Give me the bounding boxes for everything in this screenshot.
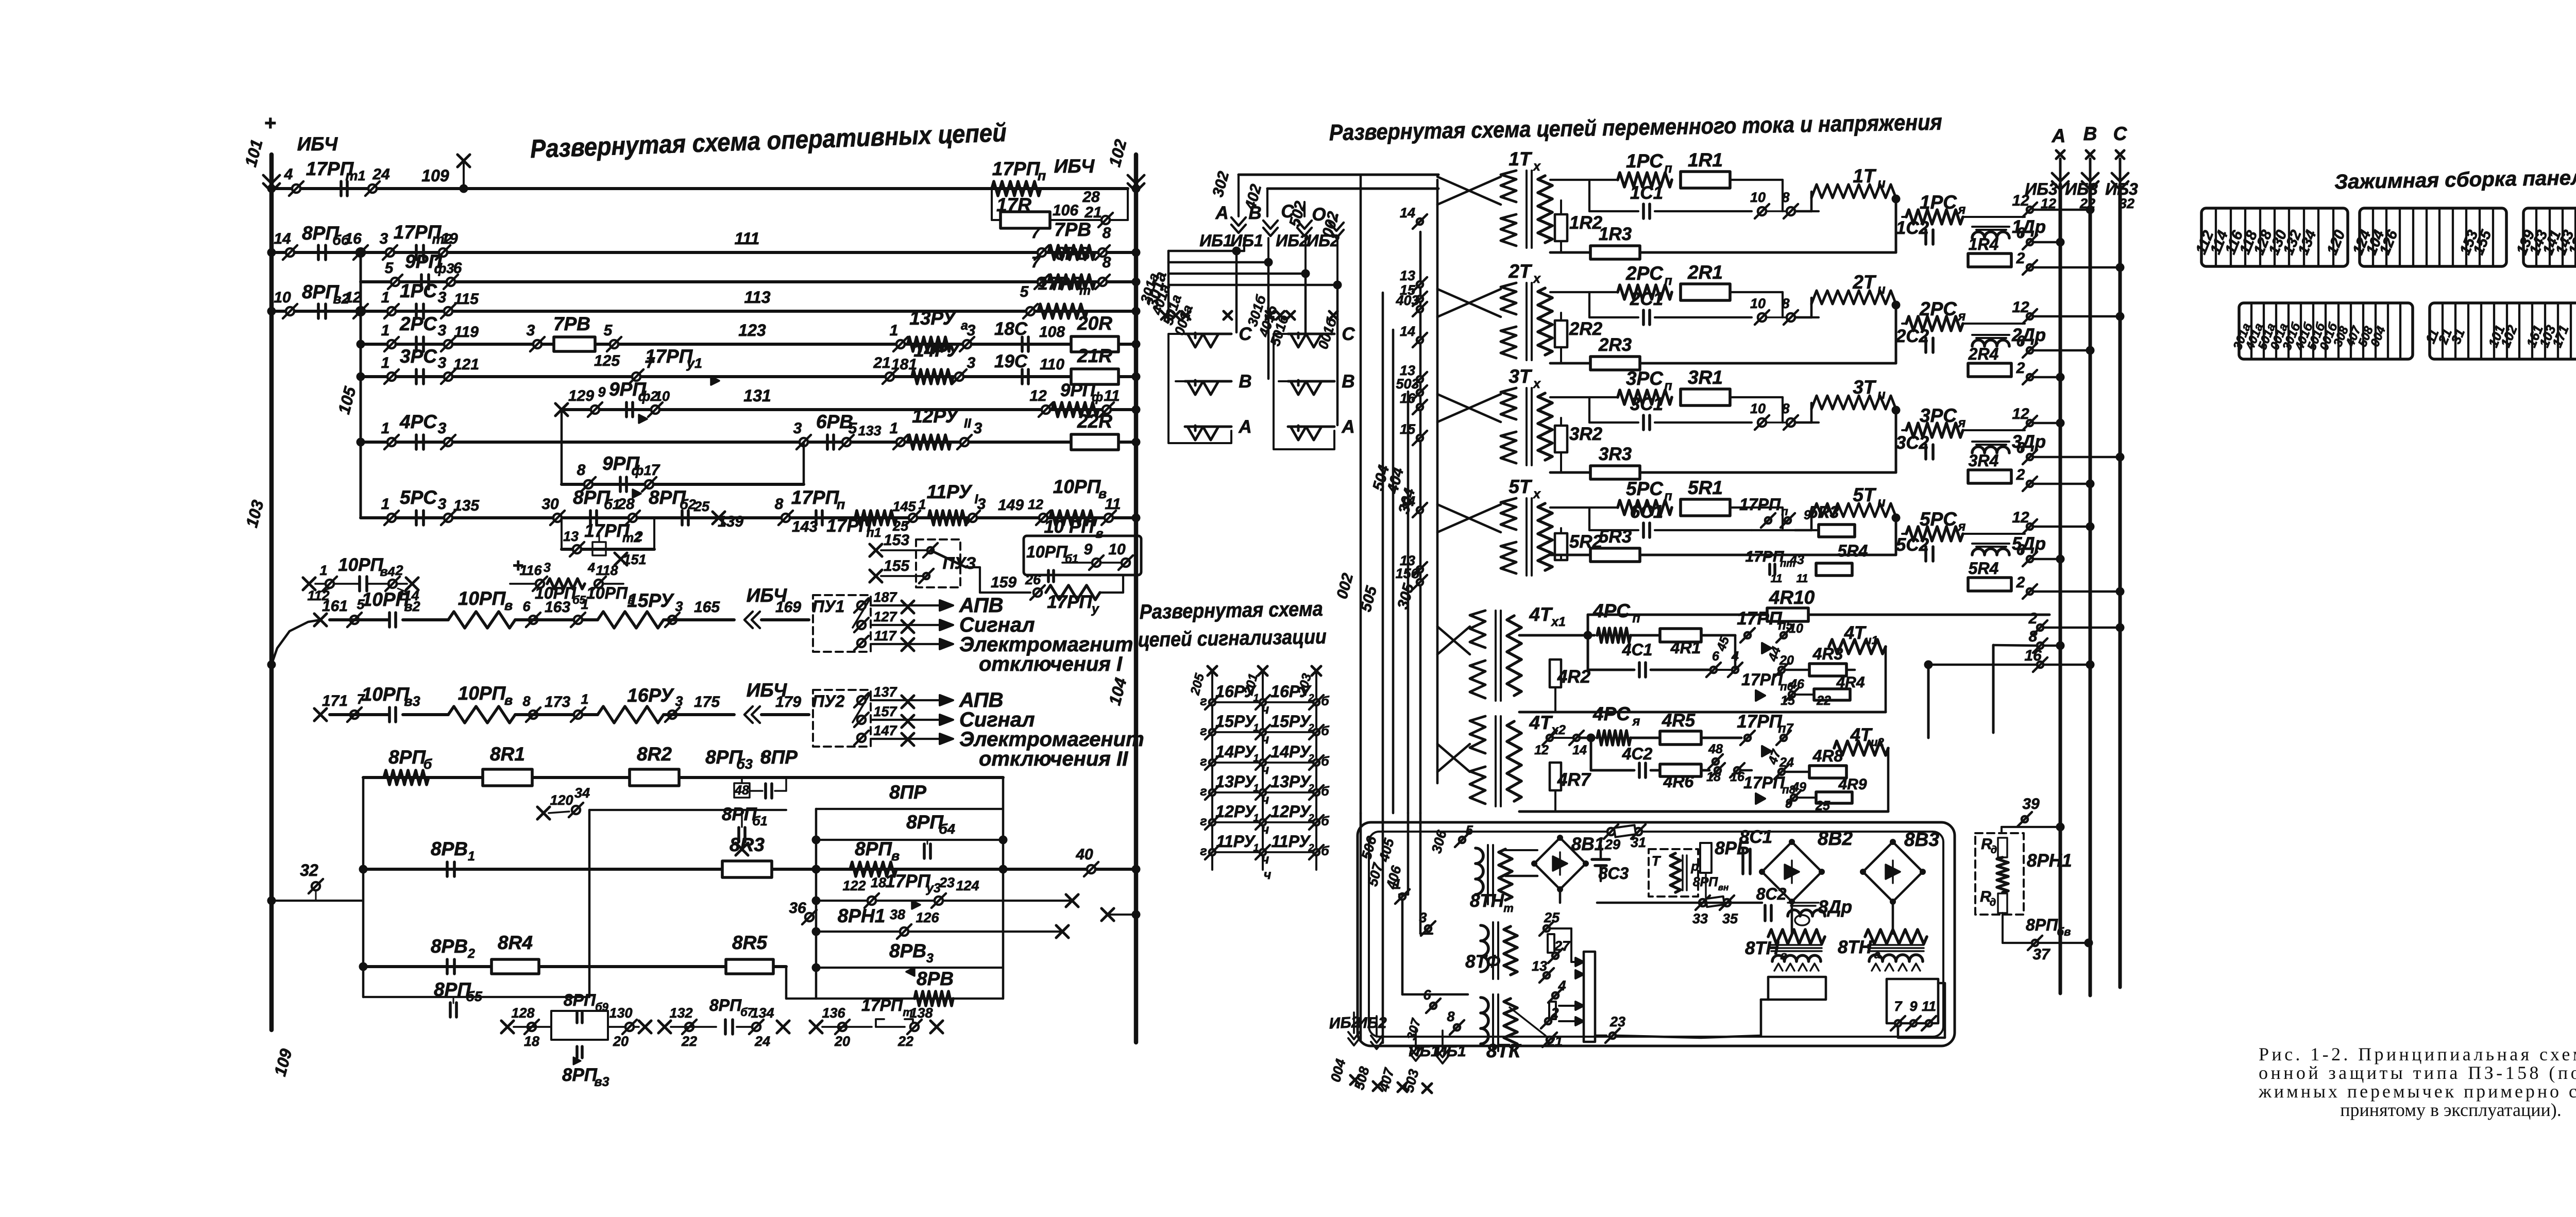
- svg-text:б: б: [1321, 844, 1330, 858]
- svg-text:4Т: 4Т: [1529, 604, 1553, 625]
- svg-text:28: 28: [617, 496, 635, 513]
- svg-text:б1: б1: [752, 814, 767, 829]
- svg-text:7: 7: [1894, 999, 1903, 1014]
- svg-text:10РП: 10РП: [458, 683, 506, 704]
- svg-text:п: п: [1664, 274, 1672, 288]
- svg-text:ч: ч: [1262, 852, 1269, 867]
- svg-text:т: т: [1503, 902, 1514, 915]
- svg-text:в: в: [891, 848, 900, 864]
- svg-text:7: 7: [1031, 225, 1041, 242]
- svg-text:30: 30: [541, 496, 559, 513]
- svg-text:5: 5: [1020, 283, 1029, 300]
- svg-text:40: 40: [1075, 846, 1093, 863]
- svg-text:6: 6: [1712, 649, 1720, 664]
- svg-text:18: 18: [524, 1034, 539, 1049]
- svg-text:4РС: 4РС: [399, 411, 437, 432]
- svg-text:г: г: [1200, 844, 1207, 858]
- svg-text:6: 6: [2016, 333, 2025, 350]
- svg-text:4R2: 4R2: [1557, 667, 1591, 687]
- svg-text:1: 1: [1253, 842, 1259, 854]
- svg-text:3: 3: [977, 496, 986, 513]
- svg-text:г: г: [1200, 694, 1207, 708]
- svg-text:ф3: ф3: [434, 261, 454, 276]
- svg-text:187: 187: [873, 589, 897, 605]
- svg-text:5R4: 5R4: [1838, 542, 1868, 560]
- svg-text:6: 6: [2016, 440, 2025, 457]
- svg-text:А: А: [1215, 203, 1228, 223]
- svg-text:1R2: 1R2: [1569, 213, 1603, 233]
- svg-text:ч: ч: [1262, 732, 1269, 747]
- svg-text:ИБ2: ИБ2: [1276, 231, 1309, 250]
- svg-text:34: 34: [574, 785, 590, 801]
- svg-text:153: 153: [884, 532, 909, 549]
- svg-text:А: А: [1341, 417, 1354, 437]
- svg-text:8ПР: 8ПР: [760, 747, 798, 768]
- svg-text:13: 13: [1400, 268, 1415, 283]
- svg-text:В: В: [1248, 203, 1261, 223]
- svg-text:8РН1: 8РН1: [838, 905, 886, 926]
- svg-text:С: С: [1281, 201, 1294, 222]
- svg-text:9РП: 9РП: [1060, 380, 1096, 400]
- svg-text:р: р: [1690, 859, 1699, 874]
- svg-text:2РС: 2РС: [1919, 298, 1957, 319]
- svg-text:115: 115: [454, 291, 479, 308]
- svg-text:ч: ч: [1262, 763, 1269, 777]
- svg-text:169: 169: [775, 599, 801, 616]
- svg-text:6: 6: [522, 599, 531, 614]
- svg-text:7РВ: 7РВ: [553, 313, 590, 334]
- svg-text:17РП: 17РП: [1038, 274, 1083, 294]
- svg-text:в4: в4: [380, 565, 395, 579]
- svg-text:8РВ: 8РВ: [431, 838, 468, 859]
- svg-text:10РП: 10РП: [338, 555, 383, 575]
- svg-text:4R10: 4R10: [1769, 587, 1815, 608]
- svg-text:109: 109: [421, 166, 449, 185]
- svg-text:г: г: [1200, 814, 1207, 829]
- svg-text:б: б: [1321, 724, 1330, 738]
- svg-text:8: 8: [522, 694, 530, 709]
- svg-text:8: 8: [1782, 190, 1789, 205]
- svg-text:8С2: 8С2: [1756, 885, 1787, 903]
- svg-text:15б: 15б: [1396, 566, 1420, 581]
- svg-text:4: 4: [284, 166, 293, 183]
- svg-text:8ТН: 8ТН: [1745, 938, 1780, 958]
- svg-text:128: 128: [511, 1005, 534, 1021]
- svg-text:2: 2: [1308, 722, 1314, 734]
- svg-text:1R1: 1R1: [1688, 149, 1723, 171]
- svg-text:143: 143: [792, 518, 818, 535]
- svg-text:2: 2: [2016, 360, 2025, 377]
- svg-text:12: 12: [2012, 509, 2029, 526]
- svg-text:8ТН: 8ТН: [1470, 891, 1504, 911]
- svg-text:139: 139: [718, 513, 743, 530]
- svg-text:г: г: [1200, 754, 1207, 769]
- svg-text:х: х: [1532, 272, 1541, 286]
- svg-text:и: и: [1877, 176, 1885, 191]
- svg-text:126: 126: [916, 910, 939, 925]
- svg-text:10: 10: [274, 289, 291, 306]
- svg-text:4Т: 4Т: [1844, 623, 1867, 643]
- svg-text:16РУ: 16РУ: [627, 685, 674, 706]
- svg-text:в: в: [1095, 527, 1103, 541]
- svg-text:48: 48: [734, 783, 749, 798]
- svg-text:15: 15: [1781, 694, 1795, 708]
- svg-text:т: т: [1079, 283, 1091, 298]
- svg-text:ИБ2: ИБ2: [1356, 1015, 1387, 1032]
- svg-text:в: в: [504, 692, 513, 708]
- svg-text:3: 3: [527, 322, 535, 339]
- svg-text:8R4: 8R4: [498, 932, 533, 953]
- svg-text:15: 15: [1400, 421, 1416, 437]
- svg-text:2Т: 2Т: [1508, 261, 1533, 282]
- svg-text:157: 157: [873, 704, 897, 719]
- svg-text:2: 2: [467, 946, 475, 961]
- svg-text:127: 127: [873, 609, 897, 624]
- svg-text:3R1: 3R1: [1688, 367, 1723, 388]
- svg-text:17РП: 17РП: [791, 487, 840, 508]
- svg-text:я: я: [1957, 416, 1966, 430]
- svg-text:8РП: 8РП: [855, 838, 892, 859]
- svg-text:2R1: 2R1: [1687, 262, 1723, 283]
- svg-text:6: 6: [2016, 225, 2025, 242]
- svg-text:12: 12: [1028, 497, 1043, 512]
- svg-text:4R5: 4R5: [1662, 711, 1696, 731]
- svg-text:3: 3: [544, 561, 551, 575]
- svg-text:16: 16: [1400, 391, 1416, 406]
- svg-text:5R3: 5R3: [1599, 527, 1632, 547]
- svg-text:3: 3: [438, 496, 447, 513]
- svg-text:8В2: 8В2: [1818, 828, 1853, 849]
- svg-text:вн: вн: [1718, 883, 1729, 892]
- svg-text:х: х: [1532, 487, 1541, 501]
- svg-text:130: 130: [609, 1005, 632, 1021]
- svg-text:А: А: [1238, 417, 1251, 437]
- svg-text:1РС: 1РС: [400, 280, 437, 301]
- svg-text:17РП: 17РП: [1745, 548, 1785, 565]
- svg-text:Зажимная сборка панели: Зажимная сборка панели: [2334, 166, 2576, 194]
- svg-text:Т: Т: [1652, 853, 1662, 869]
- svg-text:116: 116: [519, 563, 542, 578]
- svg-text:10: 10: [1108, 541, 1126, 558]
- svg-text:1С2: 1С2: [1896, 218, 1929, 238]
- svg-text:1: 1: [381, 354, 390, 371]
- svg-text:1РС: 1РС: [1920, 192, 1957, 213]
- svg-text:г: г: [1200, 724, 1207, 738]
- svg-text:8РН1: 8РН1: [2027, 851, 2072, 871]
- svg-text:5R3: 5R3: [1809, 503, 1839, 521]
- svg-text:3РС: 3РС: [400, 346, 437, 367]
- svg-text:п: п: [1632, 611, 1640, 626]
- svg-text:8R3: 8R3: [730, 834, 765, 855]
- svg-text:2: 2: [2028, 610, 2038, 627]
- svg-text:3РС: 3РС: [1626, 368, 1664, 389]
- svg-text:161: 161: [322, 598, 348, 615]
- svg-text:503: 503: [1396, 376, 1419, 392]
- svg-text:3: 3: [967, 354, 976, 371]
- svg-text:22: 22: [681, 1034, 697, 1049]
- svg-text:4R9: 4R9: [1838, 776, 1867, 793]
- svg-text:8: 8: [2029, 628, 2038, 645]
- svg-text:6РВ: 6РВ: [1055, 244, 1090, 264]
- svg-text:п: п: [1781, 505, 1788, 518]
- svg-text:14: 14: [1572, 743, 1587, 757]
- svg-text:4: 4: [587, 561, 595, 575]
- svg-text:3: 3: [793, 420, 802, 437]
- svg-text:23: 23: [1609, 1014, 1625, 1029]
- svg-text:ИБ1: ИБ1: [1199, 231, 1232, 250]
- svg-text:12: 12: [2012, 299, 2029, 316]
- svg-text:я: я: [1957, 309, 1966, 324]
- svg-text:13РУ: 13РУ: [909, 308, 957, 329]
- svg-text:ИБЧ: ИБЧ: [297, 133, 338, 155]
- svg-text:отключения II: отключения II: [979, 748, 1128, 770]
- svg-text:8С3: 8С3: [1599, 864, 1629, 883]
- svg-text:п: п: [837, 497, 845, 512]
- svg-text:1: 1: [890, 322, 899, 339]
- svg-text:ИБ2: ИБ2: [1329, 1013, 1360, 1032]
- svg-text:ч: ч: [1262, 702, 1269, 717]
- svg-text:17РП: 17РП: [1737, 712, 1782, 732]
- svg-text:12РУ: 12РУ: [912, 405, 959, 427]
- svg-text:37: 37: [2032, 946, 2050, 963]
- svg-text:2С2: 2С2: [1895, 326, 1929, 346]
- svg-text:5: 5: [604, 322, 613, 339]
- svg-text:14РУ: 14РУ: [913, 340, 961, 361]
- svg-text:и: и: [1877, 495, 1885, 510]
- svg-text:8РП: 8РП: [562, 1065, 598, 1085]
- svg-text:20R: 20R: [1077, 313, 1112, 334]
- svg-text:д: д: [1990, 897, 1996, 908]
- svg-text:б: б: [1321, 754, 1330, 769]
- svg-text:3: 3: [438, 354, 447, 371]
- svg-text:4Т: 4Т: [1850, 725, 1873, 745]
- svg-text:2Т: 2Т: [1852, 272, 1877, 293]
- svg-text:5С2: 5С2: [1896, 535, 1929, 555]
- svg-text:Развернутая схема: Развернутая схема: [1139, 598, 1323, 623]
- svg-text:108: 108: [1039, 324, 1065, 341]
- svg-text:II: II: [964, 416, 972, 431]
- svg-text:8: 8: [1782, 296, 1789, 311]
- svg-text:б4: б4: [939, 821, 955, 837]
- svg-text:14: 14: [1400, 494, 1415, 509]
- svg-text:16РУ: 16РУ: [1270, 682, 1312, 701]
- svg-text:д: д: [1991, 844, 1997, 856]
- svg-text:3: 3: [438, 420, 447, 437]
- svg-text:у1: у1: [686, 356, 702, 371]
- svg-text:4РС: 4РС: [1592, 703, 1631, 724]
- svg-text:5Т: 5Т: [1509, 476, 1533, 497]
- svg-text:3С1: 3С1: [1630, 394, 1663, 414]
- svg-text:3Т: 3Т: [1509, 366, 1533, 387]
- svg-text:12РУ: 12РУ: [1270, 802, 1312, 821]
- svg-text:1: 1: [381, 289, 390, 306]
- svg-text:137: 137: [873, 684, 897, 700]
- svg-text:134: 134: [751, 1005, 774, 1021]
- svg-text:129: 129: [568, 387, 594, 404]
- svg-text:111: 111: [735, 229, 760, 248]
- svg-text:3: 3: [926, 951, 934, 966]
- svg-text:б3: б3: [736, 756, 753, 772]
- svg-text:125: 125: [594, 352, 620, 369]
- svg-text:131: 131: [743, 386, 771, 405]
- svg-text:173: 173: [545, 694, 570, 711]
- svg-text:159: 159: [991, 574, 1016, 591]
- svg-text:2: 2: [634, 529, 642, 544]
- svg-text:149: 149: [998, 497, 1024, 514]
- svg-text:10РП: 10РП: [586, 584, 628, 602]
- svg-text:в3: в3: [594, 1075, 609, 1089]
- svg-text:32: 32: [2119, 196, 2134, 211]
- svg-text:ИБ1: ИБ1: [1435, 1043, 1466, 1060]
- svg-text:1R3: 1R3: [1599, 224, 1632, 244]
- svg-text:1С1: 1С1: [1630, 183, 1663, 203]
- svg-text:ф1: ф1: [632, 463, 652, 478]
- svg-text:и: и: [1877, 387, 1885, 402]
- svg-text:9: 9: [1909, 999, 1917, 1014]
- svg-text:11: 11: [1771, 572, 1783, 585]
- svg-text:1: 1: [918, 497, 926, 512]
- svg-text:б9: б9: [595, 1001, 609, 1013]
- svg-text:17РП: 17РП: [861, 996, 903, 1015]
- svg-text:С: С: [1342, 324, 1355, 344]
- svg-text:1: 1: [319, 563, 327, 578]
- svg-text:10РП: 10РП: [1026, 543, 1068, 561]
- svg-text:8РП: 8РП: [2026, 916, 2058, 934]
- svg-text:14РУ: 14РУ: [1270, 742, 1312, 761]
- svg-text:117: 117: [874, 628, 897, 644]
- svg-text:1: 1: [381, 322, 390, 339]
- svg-text:я: я: [1957, 202, 1966, 217]
- svg-text:3: 3: [974, 420, 982, 437]
- svg-text:С: С: [2113, 123, 2128, 144]
- svg-text:7: 7: [651, 462, 660, 479]
- svg-text:1: 1: [1253, 783, 1259, 794]
- svg-text:1Т: 1Т: [1509, 148, 1533, 170]
- svg-text:4РС: 4РС: [1592, 600, 1631, 621]
- svg-text:8В3: 8В3: [1904, 829, 1939, 850]
- svg-text:113: 113: [744, 288, 770, 307]
- svg-text:жимных перемычек примерно соот: жимных перемычек примерно соответствует: [2258, 1081, 2576, 1102]
- svg-text:3R4: 3R4: [1969, 451, 1999, 470]
- svg-text:17РП: 17РП: [1737, 608, 1782, 629]
- svg-text:15РУ: 15РУ: [1270, 712, 1312, 731]
- svg-text:122: 122: [842, 878, 866, 893]
- svg-text:1: 1: [581, 691, 588, 707]
- svg-text:4R7: 4R7: [1557, 770, 1591, 790]
- svg-text:11РУ: 11РУ: [1216, 832, 1256, 851]
- svg-text:2: 2: [2016, 466, 2025, 483]
- svg-text:4С2: 4С2: [1622, 745, 1653, 763]
- svg-text:цепей сигнализации: цепей сигнализации: [1138, 626, 1327, 651]
- svg-text:1: 1: [1253, 722, 1259, 734]
- svg-text:17РП: 17РП: [992, 158, 1041, 179]
- svg-text:19С: 19С: [994, 351, 1028, 371]
- svg-text:10: 10: [1750, 190, 1766, 205]
- svg-text:22: 22: [897, 1034, 913, 1049]
- svg-text:и2: и2: [1871, 736, 1884, 749]
- svg-text:А: А: [2052, 125, 2066, 146]
- svg-text:10РП: 10РП: [458, 588, 506, 609]
- svg-text:8ПР: 8ПР: [889, 782, 926, 803]
- svg-text:В: В: [2083, 123, 2097, 144]
- svg-text:120: 120: [550, 792, 573, 808]
- svg-text:8: 8: [577, 462, 586, 479]
- svg-text:33: 33: [1692, 911, 1708, 926]
- svg-text:Рис. 1-2. Принципиальная схема: Рис. 1-2. Принципиальная схема дистанци-: [2259, 1044, 2576, 1064]
- svg-text:1РС: 1РС: [1626, 150, 1664, 172]
- svg-text:11: 11: [1922, 999, 1936, 1014]
- svg-text:11РУ: 11РУ: [1271, 832, 1311, 851]
- svg-text:б: б: [1321, 784, 1330, 799]
- svg-text:+: +: [264, 112, 276, 134]
- svg-text:8В1: 8В1: [1571, 834, 1604, 854]
- svg-text:32: 32: [300, 861, 318, 880]
- svg-text:26: 26: [1025, 572, 1041, 587]
- svg-text:21R: 21R: [1077, 345, 1112, 366]
- svg-text:я: я: [1632, 714, 1640, 729]
- svg-text:а: а: [1874, 948, 1880, 961]
- svg-text:у: у: [1091, 602, 1099, 616]
- svg-text:7: 7: [1031, 254, 1041, 271]
- svg-text:В: В: [1239, 371, 1251, 392]
- svg-text:12: 12: [2012, 405, 2029, 422]
- svg-text:39: 39: [2022, 796, 2040, 813]
- svg-text:8: 8: [1103, 225, 1111, 242]
- svg-text:179: 179: [775, 694, 801, 711]
- svg-text:24: 24: [372, 166, 390, 183]
- svg-text:2: 2: [2016, 574, 2025, 591]
- svg-text:2R3: 2R3: [1598, 335, 1632, 355]
- svg-text:6С1: 6С1: [1630, 502, 1663, 522]
- svg-text:16РУ: 16РУ: [1215, 682, 1257, 701]
- svg-text:5: 5: [1466, 823, 1473, 838]
- svg-text:ИБЧ: ИБЧ: [1054, 156, 1095, 177]
- svg-text:17РП: 17РП: [1047, 592, 1092, 612]
- svg-text:8: 8: [1782, 401, 1789, 416]
- svg-text:36: 36: [789, 900, 806, 917]
- svg-text:х: х: [1532, 377, 1541, 391]
- svg-text:х1: х1: [1550, 615, 1566, 629]
- svg-text:ч: ч: [1262, 792, 1269, 807]
- svg-text:в2: в2: [404, 599, 420, 614]
- svg-text:106: 106: [1053, 202, 1078, 219]
- svg-text:п: п: [1038, 168, 1046, 183]
- svg-text:8ТФ: 8ТФ: [1465, 952, 1500, 972]
- svg-text:4R4: 4R4: [1836, 674, 1865, 691]
- svg-text:8РП: 8РП: [388, 747, 426, 768]
- svg-text:ч: ч: [1262, 822, 1269, 837]
- svg-text:22R: 22R: [1077, 411, 1112, 432]
- svg-text:12: 12: [344, 289, 362, 306]
- svg-text:8РП: 8РП: [564, 991, 596, 1009]
- svg-text:5РС: 5РС: [400, 487, 437, 508]
- svg-text:8: 8: [775, 496, 784, 513]
- svg-text:110: 110: [1040, 356, 1064, 373]
- svg-text:3РС: 3РС: [1920, 405, 1957, 426]
- svg-text:8РВ: 8РВ: [917, 968, 954, 989]
- svg-text:136: 136: [822, 1005, 845, 1021]
- svg-text:2: 2: [1308, 813, 1314, 824]
- svg-text:12: 12: [1029, 387, 1047, 404]
- svg-text:121: 121: [453, 356, 479, 373]
- svg-text:О: О: [1312, 205, 1326, 225]
- svg-text:8: 8: [1103, 254, 1111, 271]
- svg-text:123: 123: [738, 321, 766, 340]
- svg-text:3: 3: [438, 289, 447, 306]
- svg-text:В: В: [1342, 371, 1354, 392]
- svg-text:б: б: [1321, 694, 1330, 708]
- svg-text:132: 132: [669, 1005, 692, 1021]
